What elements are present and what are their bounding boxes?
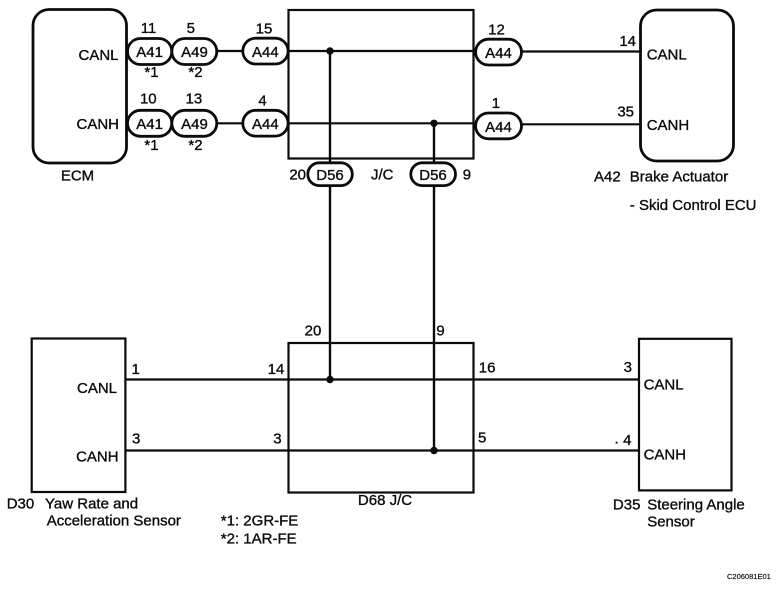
- svg-text:Sensor: Sensor: [647, 514, 695, 531]
- svg-text:5: 5: [478, 429, 486, 446]
- svg-text:3: 3: [273, 431, 281, 448]
- connector A41 CANL: [128, 39, 172, 65]
- svg-text:1: 1: [492, 95, 500, 112]
- svg-text:CANL: CANL: [77, 380, 117, 397]
- wire CANL J/C to Brake Actuator: [473, 50, 641, 52]
- wire vertical CANH branch to D68: [433, 123, 435, 450]
- svg-text:D56: D56: [419, 167, 447, 184]
- svg-text:D35: D35: [613, 496, 641, 513]
- svg-text:*2: 1AR-FE: *2: 1AR-FE: [221, 531, 297, 548]
- wire CANH J/C to Brake Actuator: [473, 123, 641, 125]
- wire CANL ECM to J/C: [126, 50, 289, 52]
- svg-text:CANH: CANH: [644, 447, 687, 464]
- svg-text:Brake Actuator: Brake Actuator: [630, 169, 728, 186]
- svg-text:A41: A41: [136, 116, 163, 133]
- svg-text:A44: A44: [252, 116, 279, 133]
- svg-text:20: 20: [305, 322, 322, 339]
- svg-text:13: 13: [186, 91, 203, 108]
- svg-text:*2: *2: [188, 137, 202, 154]
- junction-block J/C box (top): [289, 10, 474, 159]
- connector A44 CANH (right): [476, 113, 522, 139]
- svg-text:- Skid Control ECU: - Skid Control ECU: [630, 197, 757, 214]
- wire CANH through J/C: [289, 122, 474, 124]
- svg-text:A49: A49: [181, 44, 208, 61]
- connector D56 pin 9: [411, 163, 456, 186]
- wire vertical CANL branch to D68: [329, 51, 331, 380]
- svg-text:A44: A44: [252, 44, 279, 61]
- junction dot CANH at J/C: [430, 120, 437, 127]
- svg-text:4: 4: [258, 93, 266, 110]
- junction dot CANH at D68: [430, 447, 437, 454]
- svg-text:D68 J/C: D68 J/C: [358, 492, 412, 509]
- svg-text:ECM: ECM: [61, 167, 94, 184]
- svg-text:D56: D56: [316, 167, 344, 184]
- svg-text:Steering Angle: Steering Angle: [647, 496, 745, 513]
- connector D56 pin 20: [308, 163, 353, 186]
- svg-text:CANL: CANL: [78, 47, 118, 64]
- svg-text:*1: *1: [144, 64, 158, 81]
- svg-text:16: 16: [479, 360, 496, 377]
- svg-text:Acceleration Sensor: Acceleration Sensor: [47, 513, 181, 530]
- wire CANL D30 to D35: [125, 378, 639, 380]
- svg-text:A49: A49: [181, 116, 208, 133]
- svg-text:14: 14: [268, 361, 285, 378]
- svg-text:20: 20: [289, 167, 306, 184]
- svg-text:35: 35: [617, 103, 634, 120]
- svg-text:4: 4: [623, 432, 631, 449]
- svg-text:J/C: J/C: [371, 167, 394, 184]
- svg-text:11: 11: [141, 20, 157, 37]
- svg-text:A42: A42: [594, 169, 621, 186]
- connector A44 CANL (left): [243, 38, 288, 64]
- wire CANH ECM to J/C: [126, 122, 289, 124]
- svg-text:3: 3: [132, 431, 140, 448]
- D35 Steering Angle sensor box: [639, 339, 732, 491]
- D30 Yaw Rate sensor box: [32, 339, 126, 493]
- connector A44 CANH (left): [243, 110, 288, 136]
- svg-text:14: 14: [619, 33, 636, 50]
- svg-text:.: .: [615, 431, 619, 448]
- svg-text:*1: 2GR-FE: *1: 2GR-FE: [221, 513, 299, 530]
- junction dot CANL at J/C: [326, 47, 333, 54]
- svg-text:C206081E01: C206081E01: [727, 572, 771, 581]
- svg-text:12: 12: [488, 22, 505, 39]
- svg-text:CANL: CANL: [647, 47, 687, 64]
- wire CANH D30 to D35: [125, 449, 639, 451]
- connector A44 CANL (right): [476, 39, 522, 65]
- svg-text:9: 9: [436, 322, 444, 339]
- svg-text:Yaw Rate and: Yaw Rate and: [45, 495, 138, 512]
- svg-text:D30: D30: [7, 495, 35, 512]
- connector A49 CANH: [172, 110, 217, 136]
- D68 J/C box: [289, 343, 474, 493]
- svg-text:5: 5: [187, 20, 195, 37]
- junction dot CANL at D68: [326, 376, 333, 383]
- svg-text:3: 3: [624, 359, 632, 376]
- svg-text:1: 1: [132, 361, 140, 378]
- svg-text:A44: A44: [485, 119, 512, 136]
- svg-text:15: 15: [256, 21, 273, 38]
- ECM box: [33, 10, 127, 164]
- svg-text:CANH: CANH: [76, 449, 119, 466]
- svg-text:*1: *1: [144, 137, 158, 154]
- svg-text:A44: A44: [485, 45, 512, 62]
- svg-text:10: 10: [140, 91, 157, 108]
- svg-text:CANH: CANH: [647, 117, 690, 134]
- wire CANL through J/C: [289, 50, 474, 52]
- connector A41 CANH: [128, 110, 172, 136]
- svg-text:*2: *2: [188, 64, 202, 81]
- svg-text:CANH: CANH: [76, 116, 119, 133]
- svg-text:A41: A41: [136, 44, 163, 61]
- svg-text:CANL: CANL: [644, 376, 684, 393]
- Brake Actuator box A42: [641, 10, 734, 161]
- connector A49 CANL: [172, 39, 217, 65]
- svg-text:9: 9: [463, 167, 471, 184]
